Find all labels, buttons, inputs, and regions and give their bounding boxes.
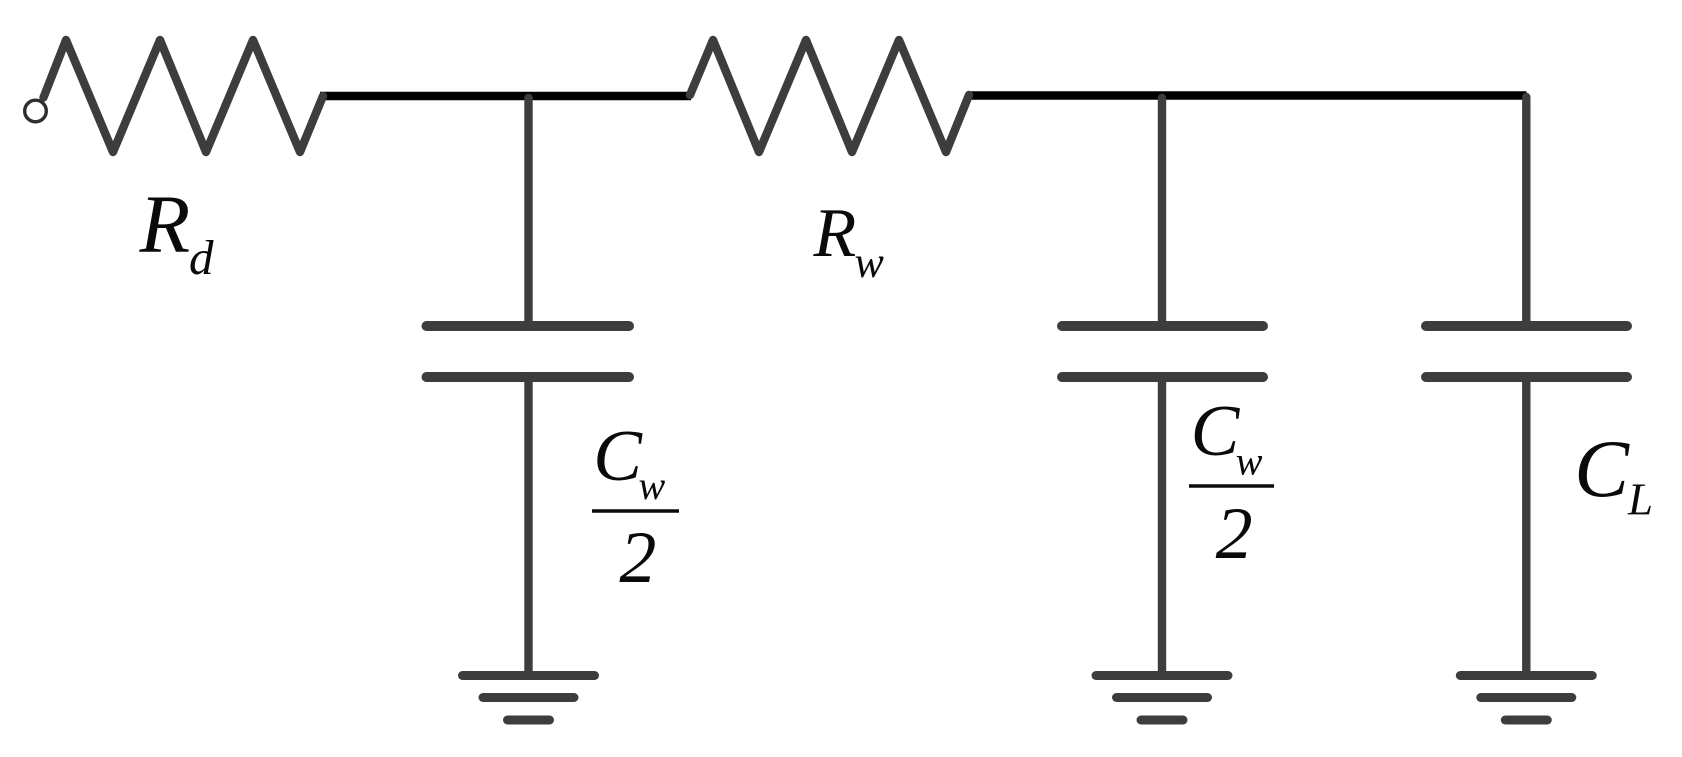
ground G2	[1096, 676, 1228, 721]
input terminal circle	[25, 100, 47, 122]
capacitor C3 CL bottom plate	[1426, 372, 1627, 382]
wire C3 bottom plate to ground	[1522, 380, 1530, 673]
svg-text:R: R	[139, 178, 191, 270]
capacitor C1 top plate	[427, 321, 630, 331]
ground G3	[1460, 676, 1592, 721]
capacitor C2 bottom plate	[1062, 372, 1263, 382]
resistor R2 Rw zigzag	[690, 40, 969, 152]
svg-text:2: 2	[619, 517, 656, 599]
wire node A (top wire between Rd and Rw)	[320, 92, 691, 101]
capacitor C2 top plate	[1062, 321, 1263, 331]
svg-text:2: 2	[1216, 493, 1253, 575]
wire C2 bottom plate to ground	[1158, 380, 1166, 673]
wire corner to C3 top plate	[1522, 97, 1530, 323]
wire lead node B to C2 top plate	[1158, 98, 1166, 323]
svg-text:C: C	[593, 415, 643, 496]
capacitor C1 bottom plate	[427, 372, 630, 382]
svg-text:L: L	[1627, 475, 1653, 525]
capacitor C3 CL top plate	[1426, 321, 1627, 331]
svg-text:w: w	[1236, 439, 1263, 484]
wire lead node A to C1 top plate	[524, 98, 532, 323]
svg-text:w: w	[639, 463, 666, 508]
svg-text:w: w	[855, 238, 885, 287]
svg-text:C: C	[1574, 423, 1630, 514]
ground G1	[463, 676, 595, 721]
svg-text:d: d	[189, 230, 214, 285]
resistor R1 Rd zigzag	[44, 40, 324, 152]
wire C1 bottom plate to ground	[524, 380, 532, 673]
svg-text:R: R	[813, 195, 857, 272]
svg-text:C: C	[1191, 390, 1241, 471]
wire node B (top wire right of Rw to CL corner)	[967, 91, 1527, 100]
